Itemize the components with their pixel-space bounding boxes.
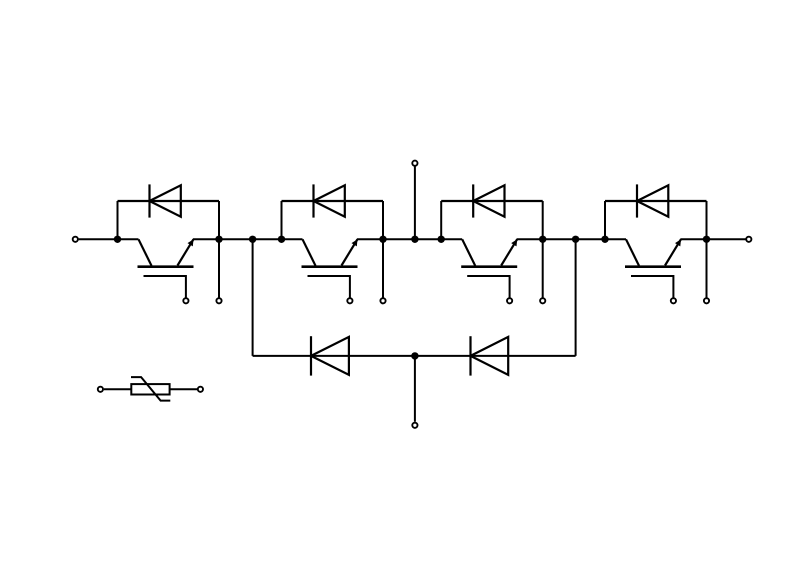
wire thermistor left lead	[104, 388, 132, 390]
wire D2 anode-side vertical	[281, 201, 283, 239]
diode D4 (anti-parallel freewheeling diode of T4)	[605, 184, 707, 217]
wire D3 anode-side vertical	[440, 201, 442, 239]
junction node at T2 emitter / D2 anode	[379, 236, 386, 243]
wire clamp rail (node B to node C)	[253, 355, 576, 357]
IGBT T4	[625, 239, 681, 297]
wire D2 cathode-side vertical / auxiliary emitter dropper	[382, 201, 384, 298]
diode D6 (clamp diode, right)	[471, 336, 509, 375]
thermistor R1 (NTC temperature sensor)	[131, 377, 170, 401]
diode D3 (anti-parallel freewheeling diode of T3)	[441, 184, 543, 217]
wire node B down to clamp rail	[252, 239, 254, 356]
terminal auxiliary emitter E3	[540, 298, 545, 303]
junction node at T3 collector / D3 cathode	[438, 236, 445, 243]
wire node N down to terminal 4	[414, 356, 416, 422]
terminal 3 (AC midpoint terminal)	[412, 161, 417, 166]
diode D2 (anti-parallel freewheeling diode of T2)	[282, 184, 384, 217]
junction node at T4 emitter / D4 anode	[703, 236, 710, 243]
wire D4 anode-side vertical	[604, 201, 606, 239]
terminal 4 (neutral point terminal)	[412, 423, 417, 428]
junction node N on clamp rail	[411, 352, 418, 359]
junction node C (T3/T4 midpoint)	[572, 236, 579, 243]
wire D4 cathode-side vertical / auxiliary emitter dropper	[706, 201, 708, 298]
terminal auxiliary emitter E2	[380, 298, 385, 303]
terminal gate G1	[183, 298, 188, 303]
diode D1 (anti-parallel freewheeling diode of T1)	[118, 184, 220, 217]
IGBT T2	[302, 239, 358, 297]
diode D5 (clamp diode, left)	[311, 336, 349, 375]
junction node at T2 collector / D2 cathode	[278, 236, 285, 243]
terminal 1 (DC+ collector terminal)	[73, 237, 78, 242]
junction node at T1 emitter / D1 anode	[215, 236, 222, 243]
wire D1 cathode-side vertical / auxiliary emitter dropper	[218, 201, 220, 298]
wire D3 cathode-side vertical / auxiliary emitter dropper	[542, 201, 544, 298]
junction node AC on bus	[411, 236, 418, 243]
terminal 5 (thermistor left)	[98, 387, 103, 392]
terminal auxiliary emitter E1	[216, 298, 221, 303]
wire thermistor right lead	[170, 388, 197, 390]
junction node at T1 collector / D1 cathode	[114, 236, 121, 243]
junction node at T4 collector / D4 cathode	[601, 236, 608, 243]
terminal 6 (thermistor right)	[198, 387, 203, 392]
terminal gate G3	[507, 298, 512, 303]
terminal auxiliary emitter E4	[704, 298, 709, 303]
wire T3 emitter to T4 collector (node C segment)	[517, 238, 626, 240]
wire terminal1 to node A	[79, 238, 139, 240]
wire T2 emitter to T3 collector (AC node segment)	[357, 238, 462, 240]
terminal gate G4	[671, 298, 676, 303]
junction node at T3 emitter / D3 anode	[539, 236, 546, 243]
wire node C down to clamp rail	[575, 239, 577, 356]
wire AC terminal to bus	[414, 167, 416, 240]
IGBT T3	[461, 239, 517, 297]
junction node B (T1/T2 midpoint)	[249, 236, 256, 243]
IGBT T1	[138, 239, 194, 297]
wire T4 emitter to terminal 2	[681, 238, 746, 240]
wire D1 anode-side vertical	[117, 201, 119, 239]
terminal 2 (DC- emitter terminal)	[746, 237, 751, 242]
terminal gate G2	[347, 298, 352, 303]
wire T1 emitter to T2 collector (node B segment)	[193, 238, 303, 240]
